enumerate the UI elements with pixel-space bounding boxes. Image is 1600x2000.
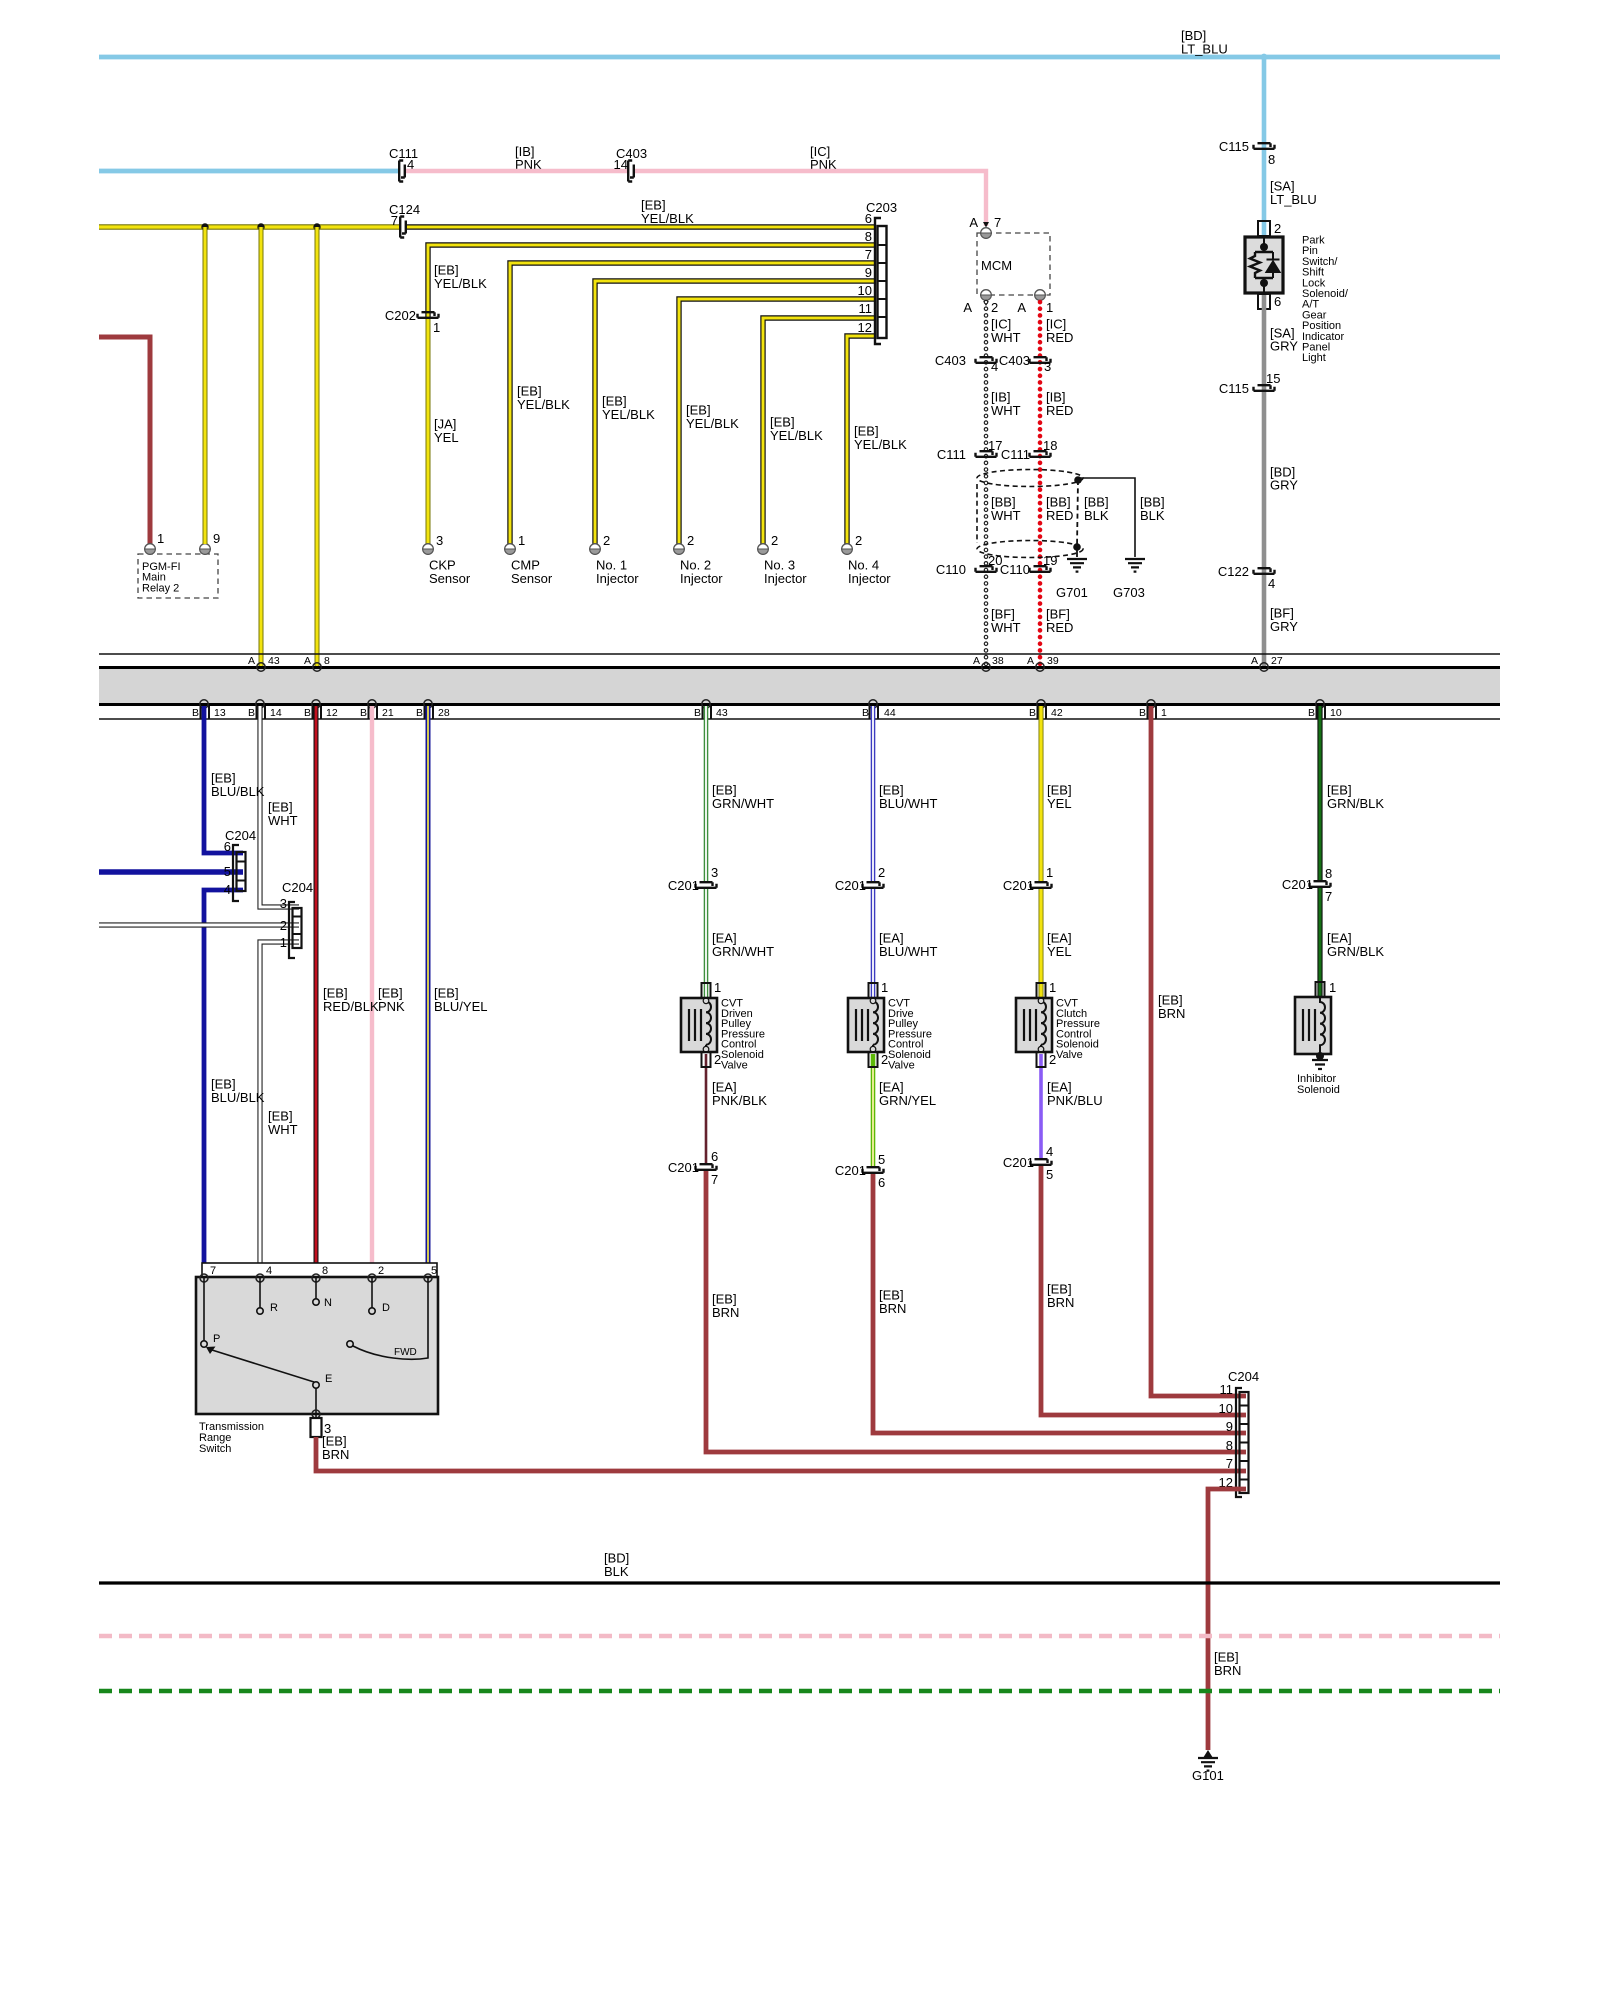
connector C201 pins 4/5 [1031, 1159, 1052, 1165]
svg-text:Relay 2: Relay 2 [142, 582, 179, 594]
svg-text:44: 44 [884, 707, 896, 719]
switch arm E to P [212, 1350, 314, 1382]
svg-text:2: 2 [280, 918, 287, 933]
svg-text:BRN: BRN [322, 1447, 349, 1462]
wire YEL/BLK to C203 pin 10 / injector 2 [679, 299, 875, 544]
svg-text:A: A [973, 655, 980, 667]
svg-text:R: R [270, 1302, 278, 1314]
svg-text:39: 39 [1047, 655, 1059, 667]
wire [BB] BLK dashed shield drain [1077, 480, 1078, 547]
svg-text:8: 8 [322, 1265, 328, 1277]
svg-text:LT_BLU: LT_BLU [1270, 192, 1317, 207]
svg-text:2: 2 [991, 300, 998, 315]
svg-text:YEL: YEL [1047, 944, 1072, 959]
svg-text:7: 7 [994, 215, 1001, 230]
wire LT_BLU vertical to C115 pin 8 [1262, 57, 1267, 239]
svg-text:C201: C201 [1282, 877, 1313, 892]
svg-text:8: 8 [1325, 866, 1332, 881]
wire YEL main bus [99, 224, 401, 229]
wire LT_BLU second row [99, 169, 400, 174]
wire [EB] WHT from B14 [260, 706, 299, 907]
svg-text:43: 43 [268, 655, 280, 667]
svg-text:FWD: FWD [394, 1347, 417, 1358]
junction node LT_BLU [1261, 54, 1268, 61]
svg-text:4: 4 [1046, 1144, 1053, 1159]
svg-text:15: 15 [1266, 371, 1280, 386]
svg-text:9: 9 [865, 265, 872, 280]
svg-text:YEL/BLK: YEL/BLK [517, 397, 570, 412]
svg-text:1: 1 [280, 935, 287, 950]
svg-text:A: A [248, 655, 255, 667]
wire [BD] LT_BLU top bus [99, 55, 1500, 60]
CMP Sensor pin 1 [505, 544, 516, 555]
svg-text:BRN: BRN [1214, 1663, 1241, 1678]
svg-text:RED: RED [1046, 508, 1073, 523]
svg-text:C201: C201 [668, 878, 699, 893]
svg-text:1: 1 [1161, 707, 1167, 719]
wire GRN dashed bus [99, 1689, 1500, 1694]
svg-text:LT_BLU: LT_BLU [1181, 42, 1228, 57]
wire to PGM-FI Main Relay 2 [99, 337, 150, 544]
svg-text:14: 14 [270, 707, 282, 719]
svg-text:BLU/YEL: BLU/YEL [434, 999, 487, 1014]
svg-text:C204: C204 [282, 880, 313, 895]
svg-text:14: 14 [614, 157, 628, 172]
wire [EB] BLU/BLK from B13 [204, 706, 243, 853]
wire [EA] YEL [1039, 889, 1044, 998]
svg-text:G703: G703 [1113, 585, 1145, 600]
connector C111 pin 4 [399, 161, 405, 182]
wire [EB] BRN C204 pin 12 to G101 [1208, 1489, 1246, 1750]
svg-text:GRN/WHT: GRN/WHT [712, 796, 774, 811]
wire [EA] BLU/WHT [871, 889, 876, 998]
svg-text:WHT: WHT [991, 620, 1021, 635]
svg-text:GRY: GRY [1270, 339, 1298, 354]
svg-text:D: D [382, 1302, 390, 1314]
svg-text:13: 13 [214, 707, 226, 719]
wire [EB] GRN/WHT from B43 [704, 706, 709, 882]
svg-text:6: 6 [711, 1149, 718, 1164]
connector C201 pins 8/7 [1310, 881, 1331, 887]
svg-text:1: 1 [433, 320, 440, 335]
ground inhibitor solenoid [1312, 1060, 1328, 1069]
svg-text:1: 1 [1046, 300, 1053, 315]
svg-text:P: P [213, 1333, 220, 1345]
Transmission Range Switch box [196, 1277, 438, 1414]
svg-text:PNK/BLU: PNK/BLU [1047, 1093, 1103, 1108]
svg-text:BLK: BLK [1140, 508, 1165, 523]
svg-text:BRN: BRN [1047, 1295, 1074, 1310]
svg-text:Valve: Valve [721, 1059, 748, 1071]
wire YEL to ECM A8 [315, 227, 320, 666]
wire BLU/BLK out of C204 pin 4 down to TRS pin 7 [204, 890, 243, 1264]
wire [EB] PNK from B21 to TRS pin 2 [370, 706, 374, 1264]
svg-text:GRY: GRY [1270, 478, 1298, 493]
wire [EB] YEL from B42 [1039, 706, 1044, 882]
svg-text:2: 2 [771, 533, 778, 548]
wire YEL/BLK to C203 pin 7 / CMP branch [510, 263, 875, 544]
CVT Clutch Pressure Control Solenoid Valve [1039, 1054, 1043, 1068]
svg-text:GRN/BLK: GRN/BLK [1327, 796, 1384, 811]
svg-text:Valve: Valve [1056, 1049, 1083, 1061]
svg-text:B: B [1308, 707, 1315, 719]
ECM pin circles row B [200, 700, 1324, 708]
svg-text:Valve: Valve [888, 1059, 915, 1071]
wire WHT into C204 pin 2 [99, 922, 299, 927]
svg-text:18: 18 [1043, 438, 1057, 453]
svg-text:1: 1 [518, 533, 525, 548]
svg-text:1: 1 [1049, 980, 1056, 995]
wire RED dotted MCM A1 to ECM A39 [1038, 302, 1043, 665]
svg-text:7: 7 [391, 213, 398, 228]
svg-text:RED/BLK: RED/BLK [323, 999, 379, 1014]
svg-text:5: 5 [431, 1265, 437, 1277]
connector C111 pin 17 [976, 451, 997, 457]
svg-text:28: 28 [438, 707, 450, 719]
wire [EB] BRN driven pulley to C204 pin 8 [706, 1171, 1246, 1452]
wire WHT out of C204 pin 1 down to TRS pin 4 [260, 942, 299, 1264]
svg-text:11: 11 [859, 301, 873, 316]
wire [EA] GRN/WHT [704, 889, 709, 984]
svg-text:Light: Light [1302, 352, 1326, 364]
wire YEL relay pin 9 [203, 227, 208, 544]
wire BLU/BLK into C204 pin 5 [99, 869, 243, 875]
svg-text:Solenoid: Solenoid [1297, 1084, 1340, 1096]
svg-text:B: B [862, 707, 869, 719]
wire [EA] GRN/YEL [871, 1068, 876, 1166]
svg-text:WHT: WHT [268, 1122, 298, 1137]
svg-text:2: 2 [378, 1265, 384, 1277]
svg-text:B: B [694, 707, 701, 719]
svg-text:7: 7 [1325, 889, 1332, 904]
svg-text:C115: C115 [1219, 139, 1249, 154]
wire [EB] BRN drive pulley to C204 pin 9 [873, 1174, 1246, 1433]
ground G701 [1067, 559, 1087, 572]
svg-text:19: 19 [1043, 553, 1057, 568]
svg-text:38: 38 [992, 655, 1004, 667]
svg-text:YEL/BLK: YEL/BLK [602, 407, 655, 422]
connector C110 pin 20 [976, 566, 997, 572]
svg-text:G701: G701 [1056, 585, 1088, 600]
svg-text:6: 6 [878, 1175, 885, 1190]
svg-text:A: A [1251, 655, 1258, 667]
Inhibitor Solenoid [1316, 982, 1325, 997]
svg-text:4: 4 [991, 359, 998, 374]
wire [EA] PNK/BLU [1039, 1068, 1043, 1158]
svg-text:7: 7 [711, 1172, 718, 1187]
svg-text:WHT: WHT [268, 813, 298, 828]
connector C122 pin 4 [1254, 568, 1275, 574]
svg-text:E: E [325, 1373, 332, 1385]
svg-text:A: A [963, 300, 972, 315]
svg-text:3: 3 [280, 896, 287, 911]
svg-text:C111: C111 [1001, 447, 1030, 462]
svg-text:11: 11 [1220, 1382, 1234, 1397]
ground G101 [1203, 1750, 1213, 1758]
svg-text:C201: C201 [668, 1160, 699, 1175]
contact D [371, 1277, 373, 1308]
svg-text:10: 10 [1219, 1401, 1233, 1416]
wire [EB] BRN from B1 to C204 pin 11 [1151, 706, 1246, 1396]
svg-text:Switch: Switch [199, 1443, 231, 1455]
svg-text:2: 2 [1274, 221, 1281, 236]
svg-text:5: 5 [878, 1152, 885, 1167]
wire [EB] BRN clutch solenoid to C204 pin 10 [1041, 1166, 1246, 1415]
svg-text:PNK/BLK: PNK/BLK [712, 1093, 767, 1108]
Transmission Range Switch header [202, 1263, 437, 1277]
MCM dashed box [977, 233, 1050, 295]
svg-text:C111: C111 [937, 447, 966, 462]
svg-text:C110: C110 [1000, 562, 1030, 577]
wire YEL/BLK to C203 pin 9 / injector 1 [595, 281, 875, 544]
svg-text:PNK: PNK [378, 999, 405, 1014]
svg-text:C201: C201 [835, 878, 866, 893]
svg-text:C201: C201 [1003, 1155, 1034, 1170]
svg-text:3: 3 [1044, 359, 1051, 374]
svg-text:BRN: BRN [879, 1301, 906, 1316]
svg-text:5: 5 [1046, 1167, 1053, 1182]
Park Pin Switch component [1258, 221, 1270, 236]
svg-text:4: 4 [224, 882, 231, 897]
wire YEL/BLK C124 to C203 pin 6 [407, 224, 875, 229]
connector C124 pin 7 [400, 217, 406, 238]
svg-text:YEL/BLK: YEL/BLK [686, 416, 739, 431]
No. 1 Injector pin 2 [590, 544, 601, 555]
svg-text:Injector: Injector [764, 571, 807, 586]
MCM pin A7 [983, 222, 989, 228]
svg-text:BLU/BLK: BLU/BLK [211, 1090, 265, 1105]
svg-text:BLK: BLK [604, 1564, 629, 1579]
svg-text:YEL/BLK: YEL/BLK [434, 276, 487, 291]
svg-text:YEL: YEL [1047, 796, 1072, 811]
svg-text:Injector: Injector [848, 571, 891, 586]
svg-text:1: 1 [881, 980, 888, 995]
No. 3 Injector pin 2 [758, 544, 769, 555]
svg-text:BLU/WHT: BLU/WHT [879, 944, 938, 959]
connector C115 pin 8 [1254, 143, 1275, 149]
svg-text:C403: C403 [999, 353, 1030, 368]
wire WHT dotted MCM A2 to ECM A38 [983, 301, 989, 306]
connector C201 pin 2 [863, 882, 884, 888]
svg-text:WHT: WHT [991, 330, 1021, 345]
svg-text:BRN: BRN [1158, 1006, 1185, 1021]
connector C110 pin 19 [1030, 566, 1051, 572]
svg-text:A: A [1017, 300, 1026, 315]
connector C201 pin 3 [696, 882, 717, 888]
No. 2 Injector pin 2 [674, 544, 685, 555]
svg-text:C201: C201 [1003, 878, 1034, 893]
svg-text:2: 2 [878, 865, 885, 880]
wire YEL to ECM A43 [259, 227, 264, 666]
contact N [315, 1277, 317, 1299]
svg-text:RED: RED [1046, 403, 1073, 418]
svg-text:C110: C110 [936, 562, 966, 577]
svg-text:A: A [1027, 655, 1034, 667]
svg-text:12: 12 [326, 707, 338, 719]
wire PNK to C403 [406, 169, 629, 173]
svg-text:YEL: YEL [434, 430, 459, 445]
svg-text:RED: RED [1046, 620, 1073, 635]
svg-text:2: 2 [855, 533, 862, 548]
svg-text:8: 8 [1226, 1438, 1233, 1453]
svg-text:GRN/BLK: GRN/BLK [1327, 944, 1384, 959]
PGM-FI Main Relay 2 box [138, 554, 218, 598]
TRS pin E to pin 3 [315, 1388, 317, 1418]
svg-text:6: 6 [224, 839, 231, 854]
svg-text:A: A [304, 655, 311, 667]
svg-text:BLU/WHT: BLU/WHT [879, 796, 938, 811]
svg-text:2: 2 [687, 533, 694, 548]
svg-text:BLU/BLK: BLU/BLK [211, 784, 265, 799]
svg-text:YEL/BLK: YEL/BLK [854, 437, 907, 452]
MCM pin A2 [981, 290, 992, 301]
wire [EA] PNK/BLK [705, 1068, 708, 1163]
TRS top pin circles [200, 1274, 432, 1282]
wire [EB] BLU/WHT from B44 [871, 706, 876, 882]
connector brackets row B [201, 706, 210, 719]
svg-text:A: A [969, 215, 978, 230]
svg-text:WHT: WHT [991, 508, 1021, 523]
connector C111 pin 18 [1030, 451, 1051, 457]
wire [EB] BLU/YEL from B28 to TRS pin 5 [426, 706, 431, 1264]
resistor + diode inside park pin switch [1263, 236, 1265, 294]
svg-text:5: 5 [224, 864, 231, 879]
svg-text:Injector: Injector [680, 571, 723, 586]
svg-text:4: 4 [266, 1265, 272, 1277]
svg-text:WHT: WHT [991, 403, 1021, 418]
svg-text:BLK: BLK [1084, 508, 1109, 523]
wire [JA] YEL to CKP sensor [426, 319, 431, 544]
svg-text:G101: G101 [1192, 1768, 1224, 1783]
wire [EB] GRN/BLK from B10 [1317, 706, 1322, 881]
svg-text:B: B [1139, 707, 1146, 719]
svg-text:8: 8 [865, 229, 872, 244]
svg-text:Sensor: Sensor [429, 571, 471, 586]
wire GRY park pin switch to ECM A27 [1262, 295, 1267, 666]
svg-text:3: 3 [436, 533, 443, 548]
connector C115 pin 15 [1254, 385, 1275, 391]
svg-text:1: 1 [157, 531, 164, 546]
CVT Driven Pulley Pressure Control Solenoid Valve [704, 984, 709, 998]
wire PNK to MCM pin A7 [635, 171, 986, 226]
svg-text:42: 42 [1051, 707, 1063, 719]
CVT Drive Pulley Pressure Control Solenoid Valve [871, 1054, 876, 1068]
No. 4 Injector pin 2 [842, 544, 853, 555]
svg-text:RED: RED [1046, 330, 1073, 345]
wire [BB] BLK to G703 [1078, 478, 1135, 557]
wire shield to G701 [1076, 547, 1078, 557]
svg-text:9: 9 [213, 531, 220, 546]
svg-text:C122: C122 [1218, 564, 1249, 579]
svg-text:10: 10 [858, 283, 872, 298]
svg-text:1: 1 [1329, 980, 1336, 995]
svg-text:7: 7 [1226, 1456, 1233, 1471]
svg-text:YEL/BLK: YEL/BLK [770, 428, 823, 443]
connector C201 pins 5/6 [863, 1167, 884, 1173]
svg-text:MCM: MCM [981, 258, 1012, 273]
wire YEL/BLK to C203 pin 12 / injector 4 [847, 336, 875, 544]
ECM/PCM bus bar [99, 653, 1500, 655]
wire YEL/BLK to C203 pin 11 / injector 3 [763, 318, 875, 544]
MCM pin A1 [1035, 290, 1046, 301]
svg-text:7: 7 [210, 1265, 216, 1277]
wire [EB] RED/BLK from B12 to TRS pin 8 [314, 706, 319, 1264]
svg-text:6: 6 [1274, 294, 1281, 309]
wire [EA] GRN/BLK [1317, 888, 1322, 997]
connector C403 pin 14 [628, 161, 634, 182]
connector C403 pin 4 [976, 357, 997, 363]
svg-text:C201: C201 [835, 1163, 866, 1178]
CKP Sensor pin 3 [423, 544, 434, 555]
svg-text:1: 1 [714, 980, 721, 995]
svg-text:12: 12 [858, 320, 872, 335]
svg-text:B: B [192, 707, 199, 719]
contact P [203, 1277, 205, 1341]
svg-text:B: B [360, 707, 367, 719]
connector C201 pins 6/7 [696, 1164, 717, 1170]
svg-text:43: 43 [716, 707, 728, 719]
svg-text:Injector: Injector [596, 571, 639, 586]
svg-text:8: 8 [324, 655, 330, 667]
ground G703 [1125, 559, 1145, 572]
svg-text:21: 21 [382, 707, 394, 719]
svg-text:3: 3 [711, 865, 718, 880]
svg-text:7: 7 [865, 247, 872, 262]
connector C403 pin 3 [1030, 357, 1051, 363]
shielded twisted pair [977, 470, 1083, 487]
svg-text:C202: C202 [385, 308, 416, 323]
svg-text:27: 27 [1271, 655, 1283, 667]
wire PNK dashed bus [99, 1634, 1500, 1638]
svg-text:B: B [304, 707, 311, 719]
svg-text:9: 9 [1226, 1419, 1233, 1434]
connector C201 pin 1 [1031, 882, 1052, 888]
svg-text:B: B [416, 707, 423, 719]
svg-text:YEL/BLK: YEL/BLK [641, 211, 694, 226]
svg-text:GRN/WHT: GRN/WHT [712, 944, 774, 959]
svg-text:10: 10 [1330, 707, 1342, 719]
svg-text:C403: C403 [935, 353, 966, 368]
svg-text:GRN/YEL: GRN/YEL [879, 1093, 936, 1108]
svg-text:8: 8 [1268, 152, 1275, 167]
svg-text:BRN: BRN [712, 1305, 739, 1320]
contact FWD [353, 1277, 428, 1359]
svg-text:C115: C115 [1219, 381, 1249, 396]
svg-text:B: B [248, 707, 255, 719]
svg-text:B: B [1029, 707, 1036, 719]
wire YEL/BLK to C203 pin 8 / CKP branch [428, 245, 875, 317]
wire [EB] BRN TRS pin 3 to C204 pin 7 [316, 1437, 1246, 1471]
svg-text:2: 2 [603, 533, 610, 548]
svg-text:Sensor: Sensor [511, 571, 553, 586]
svg-text:4: 4 [1268, 576, 1275, 591]
svg-text:6: 6 [865, 211, 872, 226]
svg-text:N: N [324, 1297, 332, 1309]
junction dots on YEL bus [201, 223, 208, 230]
contact R [259, 1277, 261, 1308]
connector C202 pin 1 [418, 312, 439, 318]
svg-text:1: 1 [1046, 865, 1053, 880]
svg-text:GRY: GRY [1270, 619, 1298, 634]
